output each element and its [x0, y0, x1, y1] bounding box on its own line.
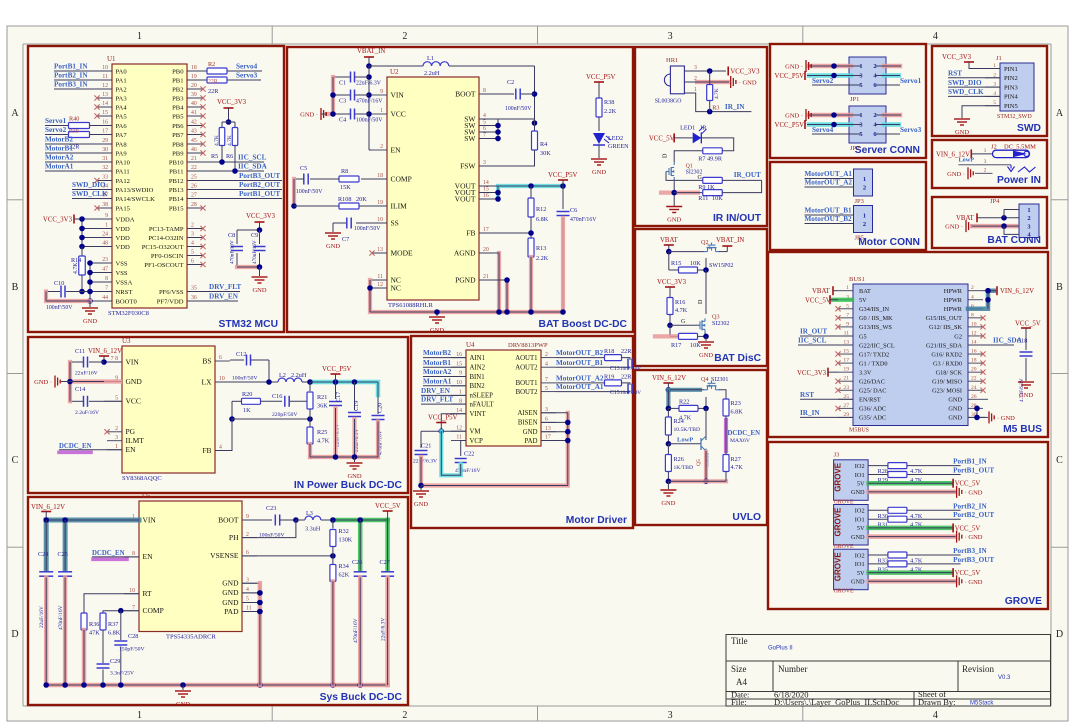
svg-text:PortB2_IN: PortB2_IN	[54, 72, 88, 80]
wire PortB1_OUT	[187, 198, 282, 200]
svg-text:GND: GND	[414, 501, 428, 508]
svg-text:22: 22	[971, 376, 977, 382]
resistor R31	[888, 516, 907, 522]
wire PGND drop	[505, 280, 509, 312]
wire J3a 5V green	[869, 481, 952, 486]
svg-text:SWD: SWD	[1017, 123, 1041, 134]
svg-text:28: 28	[191, 202, 197, 208]
svg-text:12: 12	[102, 83, 108, 89]
wire IIC_SDA	[187, 170, 264, 172]
resistor R9	[703, 177, 723, 183]
svg-text:IIC_SDA: IIC_SDA	[238, 163, 268, 171]
wire Q1 source	[661, 191, 698, 195]
svg-text:PortB3_OUT: PortB3_OUT	[239, 172, 280, 180]
resistor R3	[709, 71, 711, 84]
svg-text:2: 2	[191, 223, 194, 229]
svg-text:IO1: IO1	[855, 517, 865, 524]
group box BAT CONN	[932, 197, 1047, 248]
svg-text:6.8K: 6.8K	[108, 630, 121, 637]
svg-text:R11: R11	[698, 195, 708, 202]
svg-text:11: 11	[102, 74, 108, 80]
wire R34 gnd	[331, 582, 336, 686]
svg-text:19: 19	[191, 74, 197, 80]
no-connect bus left	[835, 306, 840, 311]
wire VSENSE	[242, 555, 333, 557]
U4 right pins	[541, 357, 556, 359]
ground C7	[332, 223, 334, 232]
svg-text:9: 9	[380, 89, 383, 95]
wire PortB2_IN	[54, 79, 112, 81]
svg-text:GND: GND	[222, 598, 239, 607]
svg-text:G15/IIS_OUT: G15/IIS_OUT	[926, 315, 963, 322]
svg-text:ILIM: ILIM	[391, 201, 408, 210]
svg-text:19: 19	[377, 200, 383, 206]
svg-text:30K: 30K	[540, 150, 551, 157]
wire Q5 collector	[705, 436, 707, 440]
ground uvlo	[667, 481, 669, 489]
svg-text:PH: PH	[229, 533, 239, 542]
svg-text:1: 1	[137, 31, 142, 42]
svg-text:VCC_3V3: VCC_3V3	[246, 213, 276, 220]
svg-text:1: 1	[846, 285, 849, 291]
wire FSW	[479, 150, 535, 166]
svg-text:DCDC_EN: DCDC_EN	[59, 443, 92, 450]
svg-text:GND: GND	[347, 473, 361, 480]
svg-text:100nF/50V: 100nF/50V	[505, 106, 532, 112]
wire IR_OUT bus	[800, 335, 853, 337]
svg-text:SWD_DIO: SWD_DIO	[72, 181, 106, 189]
svg-text:U4: U4	[466, 341, 475, 349]
svg-text:PA11: PA11	[116, 168, 130, 175]
wire cap left rail GND highlight	[327, 77, 333, 114]
svg-text:PB7: PB7	[172, 132, 184, 139]
svg-text:PC14-O32IN: PC14-O32IN	[148, 235, 183, 242]
svg-text:GREEN: GREEN	[608, 143, 629, 150]
wire J3b GND pink	[869, 534, 955, 539]
svg-text:NRST: NRST	[116, 289, 133, 296]
svg-text:DC_5.5MM: DC_5.5MM	[1004, 144, 1036, 151]
wire BS to LX	[268, 360, 270, 382]
svg-text:C21: C21	[421, 443, 431, 450]
svg-text:MotorOUT_B1: MotorOUT_B1	[805, 207, 853, 215]
svg-text:U2: U2	[390, 68, 399, 76]
svg-text:VSS: VSS	[116, 270, 128, 277]
svg-text:Revision: Revision	[962, 664, 995, 674]
svg-text:9: 9	[105, 213, 108, 219]
svg-text:IN Power Buck DC-DC: IN Power Buck DC-DC	[294, 480, 403, 491]
resistor R28	[888, 463, 907, 469]
svg-text:2.2uH: 2.2uH	[424, 70, 440, 77]
svg-text:48: 48	[102, 241, 108, 247]
wire JP1 Servo1	[875, 84, 900, 86]
wire JP2 Servo4	[812, 133, 861, 135]
svg-text:VBAT_IN: VBAT_IN	[716, 237, 744, 244]
svg-text:VCC_P5V: VCC_P5V	[548, 172, 578, 179]
svg-text:GND: GND	[176, 701, 190, 708]
svg-text:5: 5	[246, 597, 249, 603]
svg-text:VCC_5V: VCC_5V	[955, 481, 981, 488]
svg-text:14: 14	[102, 101, 108, 107]
svg-text:VIN_6_12V: VIN_6_12V	[88, 348, 122, 355]
svg-text:IR_OUT: IR_OUT	[734, 171, 761, 179]
svg-text:10K: 10K	[712, 195, 723, 202]
svg-text:BOOT: BOOT	[455, 89, 476, 98]
wire U5 gnd drop	[258, 583, 263, 685]
svg-text:PB3: PB3	[172, 95, 184, 102]
svg-text:PB13: PB13	[169, 187, 184, 194]
svg-text:PB0: PB0	[172, 68, 184, 75]
svg-text:GND: GND	[851, 489, 865, 496]
svg-text:IIC_SCL: IIC_SCL	[798, 337, 827, 345]
wire MotorOUT_B2	[805, 223, 854, 225]
svg-text:14: 14	[456, 408, 462, 414]
svg-text:MotorB2: MotorB2	[45, 136, 73, 144]
wire VOUT cyan net	[498, 186, 563, 199]
svg-text:IO2: IO2	[855, 508, 865, 515]
svg-text:10: 10	[219, 376, 225, 382]
svg-text:· GND: · GND	[965, 579, 983, 586]
svg-text:VDD: VDD	[116, 235, 131, 242]
wire VIN to R22	[666, 390, 670, 409]
svg-text:13: 13	[102, 92, 108, 98]
svg-text:20: 20	[971, 367, 977, 373]
wire DRV_FLT md	[421, 403, 466, 405]
wire IIC_SDA bus	[968, 344, 1014, 346]
svg-text:NC: NC	[391, 283, 401, 292]
resistor R5	[221, 122, 223, 127]
no-connect PG	[104, 429, 109, 434]
svg-text:R108: R108	[338, 196, 351, 203]
resistor R7	[703, 148, 723, 154]
svg-text:5V: 5V	[857, 481, 865, 488]
wire DCDC_EN buck	[59, 450, 91, 454]
wire R5 R6 tops	[222, 121, 235, 123]
wire VDD rail	[74, 218, 112, 220]
ground side bus	[983, 416, 988, 418]
svg-text:C11: C11	[75, 348, 85, 355]
U2 right pins	[479, 93, 494, 95]
svg-text:6: 6	[545, 417, 548, 423]
svg-text:1: 1	[459, 390, 462, 396]
svg-text:2: 2	[971, 285, 974, 291]
svg-text:VDDA: VDDA	[116, 216, 135, 223]
wire LED1 to R7	[701, 138, 733, 151]
svg-text:22: 22	[191, 165, 197, 171]
svg-text:PA13/SWDIO: PA13/SWDIO	[116, 187, 154, 194]
wire GND highlight BOOT0	[46, 292, 90, 302]
svg-text:BIN1: BIN1	[470, 374, 485, 381]
svg-text:GND: GND	[83, 318, 97, 325]
svg-text:10: 10	[971, 321, 977, 327]
svg-text:4: 4	[483, 113, 486, 119]
wire PortB1_OUT	[868, 474, 888, 476]
svg-text:VCC_P5V: VCC_P5V	[428, 415, 458, 422]
group box Power IN	[932, 140, 1047, 188]
svg-text:R20: R20	[242, 391, 252, 398]
wire NC pins GND	[370, 279, 387, 281]
svg-text:VCC_5V: VCC_5V	[955, 525, 981, 532]
svg-text:Title: Title	[731, 636, 748, 646]
svg-text:VCC_P5V: VCC_P5V	[775, 73, 805, 80]
svg-text:15: 15	[843, 349, 849, 355]
wire MotorB2	[423, 357, 466, 359]
svg-text:3: 3	[483, 160, 486, 166]
svg-text:27: 27	[843, 403, 849, 409]
svg-text:PortB1_IN: PortB1_IN	[54, 63, 88, 71]
wire SWD_CLK	[72, 198, 112, 200]
svg-text:1: 1	[115, 444, 118, 450]
wire MotorOUT_A1	[556, 391, 613, 393]
svg-text:31: 31	[102, 156, 108, 162]
svg-text:G25/ DAC: G25/ DAC	[859, 388, 886, 395]
group box BAT DisC	[635, 229, 767, 366]
svg-text:C: C	[12, 455, 19, 466]
svg-text:23: 23	[843, 385, 849, 391]
connector J3c GROVE	[834, 549, 869, 590]
U5 right pins	[242, 519, 257, 521]
svg-text:2: 2	[984, 167, 987, 173]
capacitor C16	[261, 400, 283, 402]
svg-text:GND: GND	[948, 406, 962, 413]
svg-text:PA2: PA2	[116, 86, 127, 93]
resistor R18	[605, 355, 622, 361]
svg-text:M5 BUS: M5 BUS	[1003, 424, 1042, 435]
svg-text:2: 2	[863, 221, 866, 228]
svg-text:Servo1: Servo1	[900, 77, 922, 85]
svg-text:PortB1_OUT: PortB1_OUT	[239, 190, 280, 198]
connector JP5	[854, 206, 873, 233]
svg-text:U1: U1	[107, 55, 116, 63]
svg-text:COMP: COMP	[391, 174, 412, 183]
svg-text:G: G	[698, 175, 703, 181]
svg-text:EN/RST: EN/RST	[859, 397, 881, 404]
svg-text:8: 8	[483, 88, 486, 94]
wire GND rows highlight	[973, 224, 1016, 229]
svg-text:3: 3	[191, 232, 194, 238]
wire HPWR teal	[968, 291, 994, 309]
svg-text:Drawn By:: Drawn By:	[918, 697, 956, 707]
resistor R4	[534, 123, 536, 131]
svg-text:HPWR: HPWR	[944, 306, 963, 313]
svg-text:PB11: PB11	[169, 168, 183, 175]
resistor R16	[667, 298, 673, 315]
svg-text:22R: 22R	[621, 348, 632, 355]
svg-text:22uF/6.3V: 22uF/6.3V	[413, 459, 437, 465]
wire MotorOUT_B2	[556, 357, 604, 359]
svg-text:4.7K: 4.7K	[317, 438, 330, 445]
svg-text:C13: C13	[610, 366, 620, 372]
wire VSS rail	[90, 262, 112, 264]
svg-text:2: 2	[402, 710, 407, 721]
svg-text:HPWR: HPWR	[944, 288, 963, 295]
title block	[726, 635, 1051, 707]
svg-text:VCC_P5V: VCC_P5V	[586, 74, 616, 81]
capacitor C8	[236, 230, 238, 244]
svg-text:AISEN: AISEN	[517, 410, 537, 417]
svg-text:7: 7	[846, 312, 849, 318]
svg-text:R39: R39	[69, 129, 79, 135]
svg-text:DRV_FLT: DRV_FLT	[421, 396, 453, 404]
chassis zigzag	[1018, 167, 1036, 172]
svg-text:VCP: VCP	[470, 438, 483, 445]
svg-text:R37: R37	[108, 621, 118, 628]
svg-text:DRV8813PWP: DRV8813PWP	[508, 342, 548, 349]
wire PortB2_IN	[868, 509, 888, 511]
frame border	[23, 43, 1051, 45]
svg-text:4: 4	[933, 31, 938, 42]
svg-text:PIN3: PIN3	[1004, 84, 1018, 91]
wire IR_IN bus	[800, 416, 853, 418]
wire md gnd pink	[421, 413, 568, 486]
svg-text:C20: C20	[377, 403, 384, 413]
wire JP2 right GND	[884, 113, 900, 118]
resistor R22	[668, 407, 679, 409]
svg-text:· GND: · GND	[965, 534, 983, 541]
svg-text:GND: GND	[948, 397, 962, 404]
resistor R40	[69, 123, 90, 129]
svg-text:PB4: PB4	[172, 104, 184, 111]
wire R7 to Q1	[674, 151, 703, 162]
svg-text:G16/ RXD2: G16/ RXD2	[931, 351, 962, 358]
svg-text:GND: GND	[699, 352, 713, 359]
capacitor C11	[89, 361, 104, 363]
wire VINT	[441, 414, 466, 432]
svg-text:TPS61088RHLR: TPS61088RHLR	[388, 302, 433, 309]
svg-text:VCC: VCC	[126, 397, 141, 406]
svg-text:R34: R34	[339, 563, 349, 570]
svg-text:C10: C10	[54, 280, 64, 287]
connector J3a GROVE	[834, 460, 869, 501]
svg-text:MotorB2: MotorB2	[423, 349, 451, 357]
svg-text:PB15: PB15	[169, 205, 184, 212]
svg-text:LowP: LowP	[959, 156, 975, 163]
ground BAT boost	[436, 312, 438, 316]
svg-text:GROVE: GROVE	[1005, 596, 1042, 607]
svg-text:GND ·: GND ·	[785, 64, 803, 71]
svg-text:14: 14	[483, 180, 489, 186]
wire JP2 VCC_P5V	[809, 122, 851, 127]
svg-text:PA3: PA3	[116, 95, 128, 102]
svg-text:Number: Number	[778, 664, 808, 674]
svg-text:Servo4: Servo4	[236, 63, 258, 71]
resistor R37	[100, 613, 106, 630]
svg-text:1: 1	[105, 223, 108, 229]
svg-text:PF6/VSS: PF6/VSS	[159, 289, 184, 296]
no-connect marks U1 right	[187, 88, 203, 90]
svg-text:GND: GND	[1019, 392, 1033, 399]
resistor R17	[669, 325, 671, 336]
ground disc	[698, 341, 714, 343]
capacitor C2	[479, 93, 514, 95]
resistor R26	[667, 444, 669, 455]
svg-text:10: 10	[377, 217, 383, 223]
svg-text:1: 1	[1027, 207, 1030, 214]
wire C8 C9 top	[237, 229, 260, 231]
svg-text:AOUT2: AOUT2	[515, 365, 538, 372]
svg-text:AIN1: AIN1	[470, 355, 485, 362]
capacitor C4	[333, 113, 350, 115]
wire VM cyan	[441, 431, 460, 475]
svg-text:C1: C1	[339, 80, 346, 87]
capacitor C13	[627, 359, 629, 369]
svg-text:R25: R25	[317, 429, 327, 436]
svg-text:MODE: MODE	[391, 248, 414, 257]
svg-text:22R: 22R	[208, 79, 218, 85]
svg-text:HR1: HR1	[666, 57, 678, 64]
svg-text:VCC_3V3: VCC_3V3	[797, 370, 827, 377]
svg-text:VCC_5V: VCC_5V	[375, 503, 401, 510]
svg-text:M5Stack: M5Stack	[970, 701, 994, 707]
svg-text:L1: L1	[427, 55, 434, 62]
svg-text:11: 11	[456, 435, 462, 441]
svg-text:45: 45	[191, 138, 197, 144]
svg-text:33: 33	[102, 175, 108, 181]
svg-text:VCC_P5V: VCC_P5V	[775, 122, 805, 129]
svg-text:PA0: PA0	[116, 68, 128, 75]
svg-text:GROVE: GROVE	[834, 507, 843, 537]
svg-text:SI2302: SI2302	[712, 321, 729, 327]
capacitor C10	[46, 291, 60, 293]
resistor R8	[339, 176, 359, 182]
svg-text:6.8K: 6.8K	[731, 409, 744, 416]
svg-text:BOOT0: BOOT0	[116, 298, 138, 305]
no-connect MODE	[372, 252, 387, 254]
svg-text:C8: C8	[228, 232, 235, 239]
svg-text:MotorOUT_B2: MotorOUT_B2	[805, 215, 853, 223]
svg-text:M5BUS: M5BUS	[849, 428, 869, 434]
svg-text:GND ·: GND ·	[785, 113, 803, 120]
svg-text:5: 5	[545, 386, 548, 392]
svg-text:VIN_6_12V: VIN_6_12V	[31, 504, 65, 511]
svg-text:C: C	[1056, 455, 1063, 466]
svg-text:GROVE: GROVE	[834, 462, 843, 492]
wire Q4 out	[719, 390, 726, 399]
resistor R29	[888, 472, 907, 478]
svg-text:11: 11	[377, 274, 383, 280]
wire MotorOUT_B1	[556, 366, 613, 368]
wire VCP C22	[461, 441, 466, 457]
svg-text:18: 18	[377, 173, 383, 179]
power VIN_6_12V bus	[996, 286, 998, 295]
svg-text:BISEN: BISEN	[518, 420, 538, 427]
svg-text:22uF/6.3V: 22uF/6.3V	[356, 81, 382, 87]
svg-text:3: 3	[668, 31, 673, 42]
svg-text:36: 36	[191, 295, 197, 301]
svg-text:R3: R3	[712, 105, 719, 112]
wire Q1 gate to R9	[666, 171, 669, 173]
inductor L3	[296, 519, 305, 521]
ground side buck	[54, 376, 56, 388]
svg-text:nSLEEP: nSLEEP	[470, 393, 494, 400]
wire buck left gnd	[68, 362, 72, 401]
svg-text:C28: C28	[128, 633, 138, 640]
svg-text:RT: RT	[143, 589, 153, 598]
wire C24 C25 gnd	[44, 578, 49, 686]
svg-text:PAD: PAD	[525, 438, 538, 445]
svg-text:Servo3: Servo3	[236, 72, 258, 80]
wire J3a GND pink	[869, 490, 955, 495]
wire PortB3_OUT	[868, 563, 888, 565]
svg-text:GND: GND	[948, 415, 962, 422]
svg-text:STM32F030C8: STM32F030C8	[108, 310, 149, 317]
svg-text:IR_OUT: IR_OUT	[800, 328, 827, 336]
svg-text:PIN2: PIN2	[1004, 75, 1018, 82]
wire U5 gnd pins	[242, 582, 260, 584]
svg-text:C15: C15	[610, 390, 620, 396]
svg-text:R22: R22	[679, 399, 689, 406]
svg-text:PF7/VDD: PF7/VDD	[157, 298, 184, 305]
wire MotorOUT_A2	[556, 382, 604, 384]
